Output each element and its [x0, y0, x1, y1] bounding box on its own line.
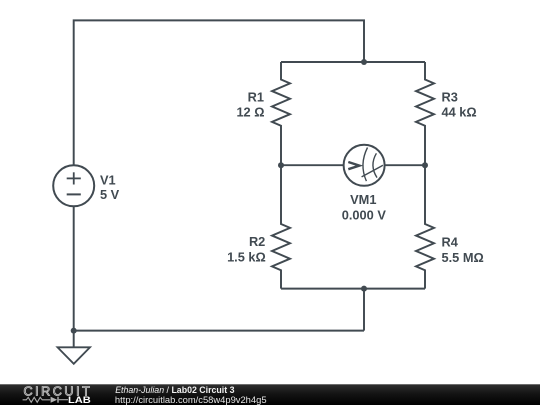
wire: ground stub	[73, 331, 75, 348]
node: right mid junction	[422, 162, 428, 168]
logo diode	[51, 397, 58, 403]
wire: bottom rail	[74, 330, 364, 332]
voltage source V1	[53, 165, 94, 206]
wire: bridge top rail	[281, 61, 425, 63]
node: ground junction	[71, 328, 77, 334]
logo wire with resistor	[23, 397, 51, 402]
voltmeter VM1	[344, 145, 385, 186]
resistor R4	[416, 165, 434, 288]
node: bottom junction	[361, 286, 367, 292]
wire: middle left segment	[281, 164, 343, 166]
svg-text:5 V: 5 V	[100, 187, 120, 202]
svg-text:44 kΩ: 44 kΩ	[442, 105, 477, 120]
svg-text:1.5 kΩ: 1.5 kΩ	[227, 250, 266, 265]
wire: middle right segment	[385, 164, 425, 166]
svg-text:VM1: VM1	[350, 192, 376, 207]
svg-text:R1: R1	[248, 89, 264, 104]
node: left mid junction	[278, 162, 284, 168]
wire: V1 bottom	[73, 206, 75, 330]
svg-text:12 Ω: 12 Ω	[236, 105, 264, 120]
resistor R1	[272, 62, 290, 165]
svg-text:R3: R3	[442, 89, 458, 104]
svg-text:http://circuitlab.com/c58w4p9v: http://circuitlab.com/c58w4p9v2h4g5	[115, 394, 267, 405]
node: top junction	[361, 59, 367, 65]
svg-text:LAB: LAB	[68, 395, 91, 405]
wire: bottom node drop	[363, 289, 365, 331]
ground	[58, 347, 91, 364]
svg-text:0.000 V: 0.000 V	[342, 208, 387, 223]
resistor R3	[416, 62, 434, 165]
wire: V1 top to top rail to bridge top node	[74, 20, 364, 165]
svg-text:R4: R4	[442, 234, 459, 249]
wire: bridge bottom rail	[281, 288, 425, 290]
svg-text:V1: V1	[100, 173, 116, 188]
svg-text:5.5 MΩ: 5.5 MΩ	[442, 250, 484, 265]
resistor R2	[272, 165, 290, 288]
svg-text:R2: R2	[249, 234, 265, 249]
